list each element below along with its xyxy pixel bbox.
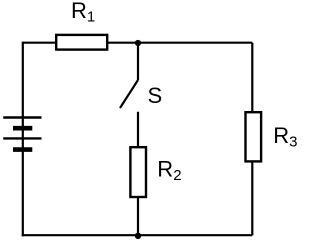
wire: top rail from battery + via R1 and node A to R3 branch [23,42,253,44]
wire: middle branch upper segment (node A to switch) [137,43,139,80]
battery B1: thin plate 2 (long) [3,137,41,139]
resistor R1 [56,35,107,50]
svg-text:R3: R3 [273,123,297,151]
svg-text:R2: R2 [157,156,181,184]
node A (top junction dot) [135,40,141,46]
battery B1: thick plate 2 (short) [13,147,32,152]
svg-text:S: S [148,83,163,108]
resistor R3 [246,112,262,161]
wire: left rail (battery branch) [22,42,24,237]
resistor R2 [130,147,146,197]
wire: right rail through R3 [251,43,253,236]
svg-text:R1: R1 [71,0,95,26]
battery B1: thin plate 1 (long) [3,116,41,118]
battery B1: thick plate 1 (short) [13,126,32,131]
node B (bottom junction dot) [135,233,141,239]
switch S blade (open) [120,80,138,108]
wire: middle branch lower segment (switch to node B through R2) [137,112,139,235]
wire: bottom rail from battery - via node B to R3 branch [22,234,253,236]
